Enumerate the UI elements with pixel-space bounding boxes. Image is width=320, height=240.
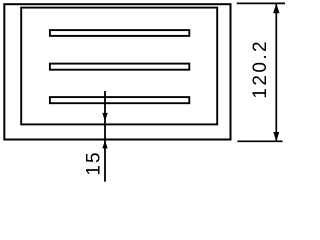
dimension 120.2: bottom extension line (237, 140, 282, 142)
inner rectangle (recessed face) (21, 8, 217, 125)
svg-text:15: 15 (84, 150, 105, 175)
dimension 15: dimension line (104, 91, 106, 182)
dimension 15: lower arrowhead (points up at outer edge) (102, 140, 107, 148)
dimension 120.2: top extension line (237, 2, 285, 4)
svg-text:120.2: 120.2 (250, 39, 271, 99)
dimension 120.2: lower arrowhead (273, 132, 279, 142)
slot 1 (50, 30, 189, 36)
dimension 120.2: dimension line (275, 4, 277, 141)
outer rectangle (plate outline) (4, 4, 230, 139)
slot 3 (50, 97, 189, 103)
dimension 15: upper arrowhead (points down at inner edge) (102, 113, 107, 121)
dimension 120.2: upper arrowhead (273, 3, 279, 13)
slot 2 (50, 64, 189, 70)
